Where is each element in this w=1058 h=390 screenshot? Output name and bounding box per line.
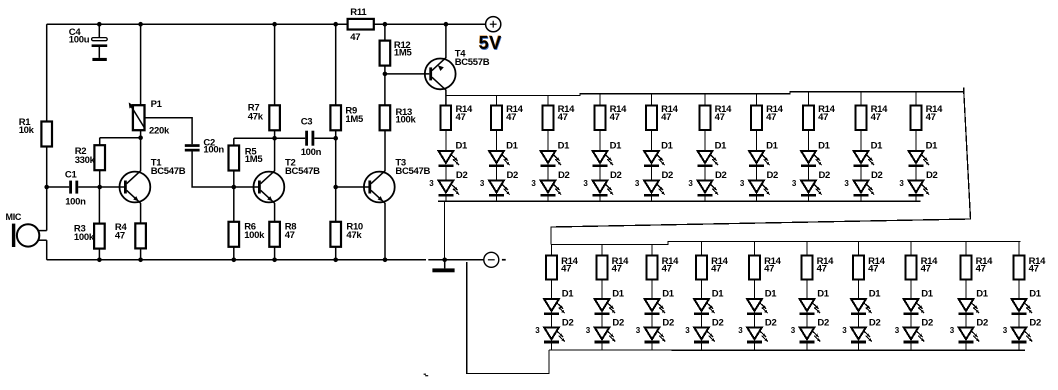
svg-text:BC547B: BC547B	[151, 166, 186, 177]
svg-text:10k: 10k	[19, 125, 35, 136]
wire D1 to D2 (bank2 col8)	[910, 315, 912, 327]
LED D2 (bank1 col6)	[697, 180, 718, 196]
label D2 (bank2 col2)	[612, 317, 624, 328]
wire MIC to ground rail	[46, 240, 48, 260]
wire bank1 to bank2 feed	[551, 88, 971, 244]
wire R9 to C3 node	[335, 130, 337, 138]
label D1 (bank2 col8)	[921, 288, 934, 299]
wire collector T3 to R13	[384, 130, 386, 171]
wire ground rail right part	[428, 259, 484, 261]
label R8 47	[285, 222, 297, 241]
wire bank1 col9 feed	[860, 92, 862, 106]
LED D2 (bank2 col4)	[694, 327, 715, 343]
wire ground rail	[47, 259, 426, 261]
resistor R11	[348, 19, 374, 30]
label D1 (bank2 col3)	[662, 288, 675, 299]
resistor R14 (bank2 col7)	[853, 256, 864, 280]
svg-text:47: 47	[1029, 264, 1039, 275]
svg-text:100k: 100k	[244, 230, 265, 241]
LED D2 (bank1 col7)	[749, 180, 770, 196]
LED D1 (bank1 col8)	[801, 151, 822, 167]
label D1 (bank1 col8)	[818, 140, 831, 151]
label D1 (bank2 col9)	[976, 288, 989, 299]
label D1 (bank1 col1)	[456, 140, 469, 151]
svg-text:100n: 100n	[301, 147, 322, 158]
label R3 100k	[74, 224, 95, 243]
wire D1 to D2 (bank1 col6)	[704, 167, 706, 181]
node T2 collector junction	[272, 136, 277, 141]
wire D1 to D2 (bank1 col9)	[860, 167, 862, 181]
svg-text:D2: D2	[662, 170, 674, 181]
wire R14 to D1 (bank1 col1)	[445, 130, 447, 151]
wire collector T1	[140, 138, 142, 172]
label D2 (bank1 col1)	[456, 170, 468, 181]
label R14 47 (bank2 col3)	[662, 256, 680, 275]
stray mark 3 (bank2 col5)	[738, 326, 743, 335]
resistor R14 (bank1 col1)	[441, 106, 452, 131]
wire base node to R13	[384, 74, 386, 105]
wire R14 to D1 (bank1 col9)	[860, 130, 862, 151]
wire R10 to ground rail	[335, 247, 337, 260]
wire D1 to D2 (bank2 col5)	[754, 315, 756, 327]
wire D2 to cathode rail (bank1 col2)	[496, 196, 498, 201]
wire P1 wiper to C2	[145, 118, 193, 144]
label T3 BC547B	[395, 157, 430, 177]
label D2 (bank2 col1)	[562, 317, 574, 328]
label T4 BC557B	[455, 49, 490, 68]
wire R7 to collector node	[274, 130, 276, 138]
svg-text:D2: D2	[921, 317, 933, 328]
svg-text:47: 47	[558, 112, 568, 123]
wire bank2 col4 feed	[701, 242, 703, 256]
svg-text:47: 47	[871, 112, 881, 123]
svg-text:D1: D1	[926, 140, 939, 151]
wire D1 to D2 (bank1 col7)	[756, 167, 758, 181]
label C4 100u	[69, 27, 90, 46]
wire LED bank1 anode rail	[446, 92, 964, 96]
wire D2 to cathode rail (bank1 col10)	[915, 196, 917, 201]
wire D1 to D2 (bank2 col1)	[551, 315, 553, 327]
svg-text:47: 47	[766, 112, 776, 123]
label D1 (bank2 col10)	[1029, 288, 1042, 299]
resistor R14 (bank2 col8)	[906, 256, 917, 280]
wire D2 to cathode rail (bank2 col3)	[651, 343, 653, 350]
label D1 (bank2 col4)	[712, 288, 725, 299]
resistor R6	[229, 222, 240, 247]
label P1 220k	[149, 99, 170, 136]
svg-text:47: 47	[285, 230, 295, 241]
svg-text:C1: C1	[65, 170, 78, 181]
wire bank2 col3 feed	[651, 245, 653, 256]
LED D2 (bank1 col9)	[853, 180, 874, 196]
resistor R14 (bank2 col4)	[696, 256, 707, 280]
svg-text:D2: D2	[1029, 317, 1041, 328]
svg-text:47: 47	[612, 264, 622, 275]
svg-text:D2: D2	[610, 170, 622, 181]
transistor T3	[364, 171, 395, 203]
wire D1 to D2 (bank1 col5)	[651, 167, 653, 181]
stray mark 3 (bank2 col9)	[950, 326, 955, 335]
wire bank2 col1 feed	[551, 245, 553, 256]
svg-text:47: 47	[610, 112, 620, 123]
resistor R14 (bank2 col2)	[597, 256, 608, 280]
svg-text:D1: D1	[818, 140, 831, 151]
label D2 (bank1 col2)	[507, 170, 519, 181]
stray mark 3 (bank1 col10)	[899, 179, 904, 188]
svg-text:D1: D1	[562, 288, 575, 299]
svg-text:220k: 220k	[149, 125, 170, 136]
node ground stub junction	[442, 258, 447, 263]
wire bank1 col3 feed	[547, 96, 549, 106]
svg-text:MIC: MIC	[6, 212, 22, 222]
svg-text:47: 47	[817, 264, 827, 275]
resistor R14 (bank1 col7)	[751, 106, 762, 131]
label R2 330k	[75, 146, 96, 166]
wire R14 to D1 (bank2 col5)	[754, 280, 756, 300]
label R14 47 (bank2 col2)	[612, 256, 630, 275]
resistor R14 (bank2 col9)	[961, 256, 972, 280]
wire collector T4 to LED bank 1	[445, 90, 447, 106]
wire base node to R10	[335, 187, 337, 222]
resistor R5	[229, 146, 240, 171]
LED D1 (bank2 col2)	[594, 299, 615, 315]
resistor R14 (bank1 col3)	[543, 106, 554, 131]
wire base node to T2	[234, 186, 258, 188]
wire bank2 cathode return	[466, 350, 549, 374]
wire D2 to cathode rail (bank1 col5)	[651, 196, 653, 201]
wire D2 to cathode rail (bank2 col9)	[965, 343, 967, 350]
label D1 (bank1 col2)	[506, 140, 519, 151]
resistor R14 (bank1 col6)	[700, 106, 711, 131]
wire R5 top to T2 collector node	[234, 137, 275, 139]
wire R14 to D1 (bank2 col8)	[910, 280, 912, 300]
svg-text:47: 47	[818, 112, 828, 123]
wire bank1 col10 feed	[915, 92, 917, 106]
resistor R14 (bank1 col9)	[856, 106, 867, 131]
label R14 47 (bank2 col5)	[764, 256, 782, 275]
stray mark bottom left	[424, 374, 429, 376]
resistor R14 (bank2 col5)	[749, 256, 760, 280]
resistor R2	[94, 145, 105, 170]
capacitor C1	[47, 181, 100, 194]
wire bank1 col7 feed	[756, 94, 758, 106]
LED D2 (bank1 col2)	[489, 180, 510, 196]
node base junction T1	[97, 185, 102, 190]
wire R6 to ground rail	[233, 247, 235, 260]
label D2 (bank1 col7)	[767, 170, 779, 181]
resistor R3	[94, 224, 105, 249]
svg-text:47k: 47k	[248, 111, 264, 122]
svg-text:D2: D2	[767, 170, 779, 181]
node C4 junction	[97, 22, 102, 27]
wire R14 to D1 (bank2 col1)	[551, 280, 553, 300]
svg-text:D2: D2	[612, 317, 624, 328]
label D1 (bank1 col3)	[558, 140, 571, 151]
capacitor C4	[92, 24, 108, 58]
wire D2 to cathode rail (bank2 col1)	[551, 343, 553, 350]
svg-text:47: 47	[115, 231, 125, 242]
node R9 rail junction	[333, 22, 338, 27]
wire R2 top to collector node	[100, 137, 141, 139]
node R8 ground junction	[272, 258, 277, 263]
LED D1 (bank2 col3)	[644, 299, 665, 315]
LED D1 (bank1 col4)	[592, 151, 613, 167]
svg-text:D1: D1	[712, 288, 725, 299]
wire R8 to ground rail	[274, 247, 276, 260]
LED D2 (bank2 col2)	[594, 327, 615, 343]
svg-text:D2: D2	[715, 170, 727, 181]
label D2 (bank1 col4)	[610, 170, 622, 181]
wire bank2 col9 feed	[965, 242, 967, 256]
stray mark 3 (bank1 col2)	[480, 179, 485, 188]
wire D1 to D2 (bank1 col4)	[599, 167, 601, 181]
wire emitter T1 to R4	[140, 203, 142, 223]
wire R14 to D1 (bank1 col6)	[704, 130, 706, 151]
LED D2 (bank1 col3)	[540, 180, 561, 196]
wire down to R5	[233, 138, 235, 145]
label D1 (bank2 col1)	[562, 288, 575, 299]
label D2 (bank1 col9)	[871, 170, 883, 181]
LED D1 (bank1 col2)	[489, 151, 510, 167]
svg-text:100n: 100n	[65, 196, 86, 207]
wire emitter T3 to ground rail	[384, 203, 386, 260]
LED D1 (bank1 col6)	[697, 151, 718, 167]
svg-text:1M5: 1M5	[345, 114, 364, 125]
LED D1 (bank2 col8)	[903, 299, 924, 315]
wire base node to T3	[336, 186, 369, 188]
label R14 47 (bank1 col2)	[506, 104, 524, 123]
svg-text:BC547B: BC547B	[285, 166, 320, 177]
wire bank2 col2 feed	[601, 245, 603, 256]
LED D2 (bank2 col1)	[544, 327, 565, 343]
svg-text:5V: 5V	[479, 33, 502, 53]
node P1 rail junction	[138, 22, 143, 27]
label R14 47 (bank2 col8)	[921, 256, 939, 275]
resistor R14 (bank2 col3)	[647, 256, 658, 280]
resistor R7	[269, 105, 280, 130]
wire R14 to D1 (bank2 col9)	[965, 280, 967, 300]
negative terminal	[484, 252, 499, 267]
label R14 47 (bank2 col7)	[868, 256, 886, 275]
LED D1 (bank2 col10)	[1011, 299, 1032, 315]
svg-text:47: 47	[921, 264, 931, 275]
label R14 47 (bank1 col8)	[818, 104, 836, 123]
svg-text:47: 47	[976, 264, 986, 275]
label R14 47 (bank1 col5)	[661, 104, 679, 123]
wire D2 to cathode rail (bank1 col4)	[599, 196, 601, 201]
svg-text:D1: D1	[456, 140, 469, 151]
LED D2 (bank2 col3)	[644, 327, 665, 343]
label R10 47k	[346, 222, 363, 241]
label D2 (bank2 col7)	[869, 317, 881, 328]
label D2 (bank1 col5)	[662, 170, 674, 181]
resistor R14 (bank1 col5)	[646, 106, 657, 131]
LED D2 (bank1 col8)	[801, 180, 822, 196]
svg-text:D1: D1	[871, 140, 884, 151]
node R12 rail junction	[383, 22, 388, 27]
label R1 10k	[19, 117, 35, 136]
LED D2 (bank2 col10)	[1011, 327, 1032, 343]
label R14 47 (bank1 col10)	[926, 104, 944, 123]
svg-text:D1: D1	[558, 140, 571, 151]
resistor R9	[330, 105, 341, 130]
label C2 100n	[203, 137, 224, 155]
label D2 (bank2 col6)	[817, 317, 829, 328]
LED D1 (bank1 col7)	[749, 151, 770, 167]
LED D1 (bank2 col9)	[958, 299, 979, 315]
svg-text:P1: P1	[151, 99, 163, 110]
svg-text:D2: D2	[662, 317, 674, 328]
svg-text:D2: D2	[817, 317, 829, 328]
wire bank2 col8 feed	[910, 242, 912, 256]
wire C2 to T2 base node	[192, 152, 234, 188]
wire D2 to cathode rail (bank1 col8)	[808, 196, 810, 201]
svg-text:D2: D2	[765, 317, 777, 328]
resistor R14 (bank1 col10)	[911, 106, 922, 131]
svg-text:47: 47	[662, 264, 672, 275]
wire D1 to D2 (bank2 col10)	[1018, 315, 1020, 327]
microphone MIC	[12, 224, 47, 247]
LED D1 (bank1 col9)	[853, 151, 874, 167]
LED D1 (bank1 col3)	[540, 151, 561, 167]
svg-text:D1: D1	[612, 288, 625, 299]
svg-text:100u: 100u	[69, 35, 90, 46]
wire bank1 col4 feed	[599, 94, 601, 106]
svg-text:D2: D2	[712, 317, 724, 328]
LED D2 (bank1 col1)	[438, 180, 459, 196]
label R4 47	[115, 222, 128, 242]
wire R14 to D1 (bank1 col5)	[651, 130, 653, 151]
svg-text:D1: D1	[869, 288, 882, 299]
label D1 (bank1 col4)	[610, 140, 623, 151]
wire LED bank2 anode rail	[551, 242, 1021, 245]
ground symbol on rail	[432, 260, 454, 273]
wire LED bank1 cathode rail	[438, 200, 921, 202]
label R14 47 (bank1 col6)	[715, 104, 733, 123]
wire D1 to D2 (bank1 col8)	[808, 167, 810, 181]
capacitor C3	[305, 131, 314, 146]
label D2 (bank1 col6)	[715, 170, 727, 181]
stray mark 3 (bank2 col10)	[1003, 326, 1008, 335]
LED D2 (bank1 col4)	[592, 180, 613, 196]
potentiometer P1	[129, 102, 145, 130]
svg-text:1M5: 1M5	[394, 48, 413, 59]
label D1 (bank1 col6)	[715, 140, 728, 151]
wire D2 to cathode rail (bank1 col7)	[756, 196, 758, 201]
label R14 47 (bank1 col4)	[610, 104, 628, 123]
wire R5 to T2 base node	[233, 171, 235, 188]
svg-text:D1: D1	[766, 140, 779, 151]
LED D1 (bank1 col1)	[438, 151, 459, 167]
stray mark 3 (bank1 col1)	[429, 179, 434, 188]
resistor R1	[41, 122, 52, 147]
node R6 ground junction	[232, 258, 237, 263]
wire D2 to cathode rail (bank1 col3)	[547, 196, 549, 201]
svg-text:D1: D1	[506, 140, 519, 151]
LED D1 (bank2 col6)	[799, 299, 820, 315]
wire collector T2	[274, 138, 276, 171]
wire D2 to cathode rail (bank1 col6)	[704, 196, 706, 201]
wire D1 to D2 (bank1 col1)	[445, 167, 447, 181]
wire collector node down	[99, 138, 101, 146]
node T3 ground junction	[383, 258, 388, 263]
label R7 47k	[248, 103, 264, 123]
label R13 100k	[396, 107, 417, 126]
wire D2 to cathode rail (bank1 col1)	[445, 196, 447, 201]
resistor R10	[330, 222, 341, 247]
node R10 ground junction	[333, 258, 338, 263]
resistor R13	[380, 105, 391, 130]
svg-text:D2: D2	[558, 170, 570, 181]
stray mark 3 (bank1 col3)	[531, 179, 536, 188]
wire C3 to R9 node	[314, 137, 335, 139]
LED D1 (bank2 col7)	[851, 299, 872, 315]
label T2 BC547B	[285, 157, 320, 177]
resistor R14 (bank1 col2)	[491, 106, 502, 131]
svg-text:D2: D2	[871, 170, 883, 181]
label R14 47 (bank1 col9)	[871, 104, 889, 123]
node T4 base junction	[383, 72, 388, 77]
wire D1 to D2 (bank1 col2)	[496, 167, 498, 181]
wire C3 node to T3 base node	[335, 138, 337, 187]
wire emitter T2 to R8	[274, 203, 276, 222]
node R4 ground junction	[138, 258, 143, 263]
label R14 47 (bank1 col7)	[766, 104, 784, 123]
svg-text:D2: D2	[819, 170, 831, 181]
wire D1 to D2 (bank1 col10)	[915, 167, 917, 181]
label R9 1M5	[345, 106, 364, 125]
wire R14 to D1 (bank1 col2)	[496, 130, 498, 151]
stray mark 3 (bank2 col1)	[535, 326, 540, 335]
svg-text:47: 47	[561, 264, 571, 275]
wire R14 to D1 (bank1 col8)	[808, 130, 810, 151]
svg-text:47: 47	[715, 112, 725, 123]
svg-text:D1: D1	[765, 288, 778, 299]
wire D2 to cathode rail (bank2 col10)	[1018, 343, 1020, 350]
wire bank1 col8 feed	[808, 92, 810, 106]
wire D1 to D2 (bank2 col7)	[858, 315, 860, 327]
svg-text:D2: D2	[869, 317, 881, 328]
wire D2 to cathode rail (bank2 col4)	[701, 343, 703, 350]
wire rail to P1	[140, 24, 142, 105]
label R14 47 (bank2 col1)	[561, 256, 579, 275]
wire D2 to cathode rail (bank2 col5)	[754, 343, 756, 350]
label C1 100n	[65, 170, 86, 208]
svg-text:BC557B: BC557B	[455, 57, 490, 68]
wire D2 to cathode rail (bank2 col2)	[601, 343, 603, 350]
label minus dash	[502, 259, 506, 261]
LED D1 (bank2 col1)	[544, 299, 565, 315]
label C3 100n	[301, 116, 322, 158]
node T4 emitter rail junction	[444, 22, 449, 27]
node R3 ground junction	[97, 258, 102, 263]
svg-text:47: 47	[868, 264, 878, 275]
wire bank1 right edge stub	[963, 88, 965, 92]
wire left column (rail to R1)	[46, 24, 48, 121]
label R14 47 (bank1 col1)	[456, 104, 474, 123]
label D1 (bank1 col10)	[926, 140, 939, 151]
label D2 (bank1 col8)	[819, 170, 831, 181]
wire R14 to D1 (bank2 col10)	[1018, 280, 1020, 300]
LED D2 (bank2 col7)	[851, 327, 872, 343]
svg-text:D1: D1	[715, 140, 728, 151]
wire base node to R6	[233, 187, 235, 222]
label R14 47 (bank2 col4)	[711, 256, 729, 275]
node C3 R9 junction	[333, 136, 338, 141]
wire D1 to D2 (bank2 col4)	[701, 315, 703, 327]
wire rail to R9	[335, 24, 337, 105]
stray mark 3 (bank1 col5)	[635, 179, 640, 188]
